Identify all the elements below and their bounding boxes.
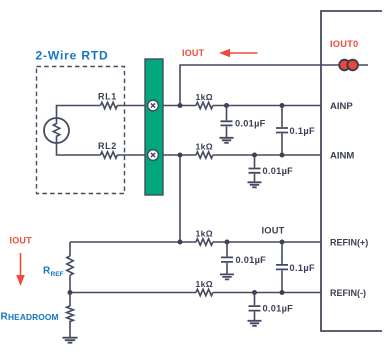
svg-text:0.1µF: 0.1µF xyxy=(290,263,315,273)
resistor R 1kOhm (AINM) xyxy=(196,142,214,159)
ground (C4) xyxy=(220,274,234,279)
ground (C6) xyxy=(248,321,262,326)
resistor R 1kOhm (REFIN-) xyxy=(196,279,214,296)
terminal block (green bar) xyxy=(145,59,163,195)
svg-text:0.01µF: 0.01µF xyxy=(236,255,267,265)
svg-text:0.01µF: 0.01µF xyxy=(263,166,294,176)
resistor RL1 xyxy=(98,92,117,109)
svg-text:RL2: RL2 xyxy=(98,141,117,151)
node AINP/filter junction xyxy=(224,103,229,108)
wire REFIN(+) row xyxy=(70,241,321,243)
node REFIN(+)/C4 junction xyxy=(225,240,230,245)
resistor R_HEADROOM xyxy=(1,293,74,338)
resistor R_REF xyxy=(43,242,73,293)
ground (C1) xyxy=(220,138,234,143)
capacitor C5 0.1uF (REFIN+ - REFIN-) xyxy=(276,242,315,293)
svg-text:IOUT0: IOUT0 xyxy=(330,39,358,49)
svg-text:HEADROOM: HEADROOM xyxy=(8,312,59,322)
terminal contact (circle-X) AINP xyxy=(148,100,159,111)
svg-text:REFIN(-): REFIN(-) xyxy=(330,288,366,298)
label IOUT (top, red) xyxy=(182,48,205,58)
svg-text:IOUT: IOUT xyxy=(182,48,205,58)
wire RTD bottom to AINM row xyxy=(57,142,101,155)
label 2-Wire RTD xyxy=(36,49,109,63)
wire IOUT0 top run xyxy=(180,65,368,106)
svg-text:REF: REF xyxy=(51,271,64,278)
wire AINM to REFIN(+) vertical feed xyxy=(179,155,181,242)
IOUT0 pin marker (double red circles) xyxy=(339,60,358,71)
svg-text:1kΩ: 1kΩ xyxy=(196,279,214,289)
label IOUT (bottom left, red) xyxy=(10,236,33,246)
node AINM/top-feed junction xyxy=(178,103,183,108)
svg-text:1kΩ: 1kΩ xyxy=(196,92,214,102)
pin label REFIN(+) xyxy=(330,238,368,248)
wire RL1 to terminal block xyxy=(117,105,145,107)
wire RTD top to AINP row xyxy=(57,106,101,120)
wire AINM row xyxy=(163,154,321,156)
label IOUT (node, navy) xyxy=(262,226,285,236)
IC U1 (ADC) box outline xyxy=(321,11,382,331)
svg-text:1kΩ: 1kΩ xyxy=(196,229,214,239)
node REFIN(-)/0.1uF junction xyxy=(280,290,285,295)
svg-text:1kΩ: 1kΩ xyxy=(196,142,214,152)
pin label AINP xyxy=(330,101,353,112)
pin label REFIN(-) xyxy=(330,288,366,298)
capacitor C4 0.01uF (REFIN+ to gnd) xyxy=(221,242,266,274)
arrow IOUT (points down) xyxy=(16,253,25,286)
pin label IOUT0 xyxy=(330,39,358,49)
node AINP/0.1uF junction xyxy=(280,103,285,108)
node AINM feed junction xyxy=(178,153,183,158)
ground (R_HEADROOM) xyxy=(63,338,78,343)
ground (C3) xyxy=(248,182,262,187)
svg-text:2-Wire RTD: 2-Wire RTD xyxy=(36,49,109,63)
arrow IOUT (points left) xyxy=(219,49,258,58)
svg-text:IOUT: IOUT xyxy=(262,226,285,236)
RTD sensor element xyxy=(44,118,69,143)
node REFIN(+)/0.1uF junction xyxy=(280,240,285,245)
node AINM/C3 junction xyxy=(252,153,257,158)
resistor R 1kOhm (AINP) xyxy=(196,92,214,109)
wire REFIN(-) row xyxy=(70,292,321,294)
svg-text:AINM: AINM xyxy=(330,151,354,162)
svg-text:0.1µF: 0.1µF xyxy=(290,126,315,136)
capacitor C6 0.01uF (REFIN- to gnd) xyxy=(249,293,294,321)
pin label AINM xyxy=(330,151,354,162)
resistor R 1kOhm (REFIN+) xyxy=(196,229,214,246)
svg-text:IOUT: IOUT xyxy=(10,236,33,246)
dashed box (RTD enclosure) xyxy=(37,67,125,194)
terminal contact (circle-X) AINM xyxy=(148,150,159,161)
capacitor C3 0.01uF (AINM to gnd) xyxy=(249,155,294,182)
wire RL2 to terminal block xyxy=(117,154,145,156)
svg-text:RL1: RL1 xyxy=(98,92,117,102)
resistor RL2 xyxy=(98,141,117,158)
svg-text:0.01µF: 0.01µF xyxy=(263,304,294,314)
node feed/REFIN(+) junction xyxy=(178,240,183,245)
node REFIN(-)/C6 junction xyxy=(252,290,257,295)
capacitor C1 0.01uF (AINP to gnd) xyxy=(221,106,266,138)
node R_REF/REFIN(-) junction xyxy=(68,290,73,295)
wire AINP row xyxy=(163,105,321,107)
capacitor C2 0.1uF (AINP-AINM) xyxy=(276,106,315,156)
svg-text:AINP: AINP xyxy=(330,101,353,112)
node AINM/0.1uF junction xyxy=(280,153,285,158)
svg-text:0.01µF: 0.01µF xyxy=(235,119,266,129)
svg-text:REFIN(+): REFIN(+) xyxy=(330,238,368,248)
